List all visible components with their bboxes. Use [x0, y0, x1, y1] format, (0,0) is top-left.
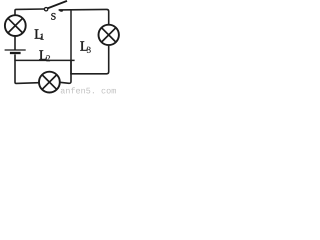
switch S: left pivot terminal circle: [44, 8, 47, 11]
switch S: right contact dot: [59, 9, 63, 12]
label L3: [80, 41, 87, 50]
lamp L2: [39, 72, 60, 93]
switch S: open lever arm: [48, 1, 67, 8]
battery cell: long plate (top): [5, 49, 26, 51]
label S: [51, 13, 55, 20]
middle vertical wire x=71 from top wire down through junctions: [70, 10, 72, 74]
label L2: [39, 50, 46, 59]
wire: lamp L2 right side to middle vertical, corner up: [60, 60, 71, 83]
battery cell: short thick plate (bottom): [10, 52, 21, 54]
wire: battery bottom down left bus to bottom-left corner, then right to lamp L2: [15, 54, 39, 83]
lamp L3: [99, 25, 119, 45]
wire top-left: from left bus corner to switch left terminal: [15, 9, 44, 15]
middle wire: from left bus T-junction to middle vertical: [14, 59, 74, 61]
watermark anfen5. com: [61, 87, 116, 93]
label L1: [35, 29, 42, 38]
top wire right segment: switch to top-right corner, down to lamp L3: [59, 9, 109, 24]
wire: L1 bottom to battery top plate: [14, 36, 16, 50]
wire: lamp L3 bottom down right bus to bottom-right corner, left to middle vertical: [70, 46, 108, 74]
lamp L1: [5, 15, 26, 36]
